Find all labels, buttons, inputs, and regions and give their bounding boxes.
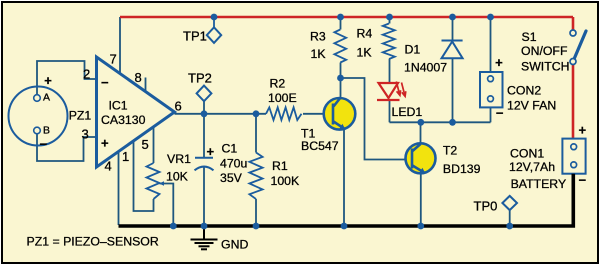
svg-text:R4: R4 [357,27,373,41]
svg-text:5: 5 [142,137,149,152]
svg-text:TP1: TP1 [183,29,207,44]
svg-text:1K: 1K [311,47,327,61]
svg-text:6: 6 [175,99,182,114]
svg-text:35V: 35V [220,171,243,185]
svg-text:C1: C1 [222,142,238,156]
svg-text:−: − [496,105,504,120]
svg-text:IC1: IC1 [109,99,128,113]
svg-text:BC547: BC547 [301,139,339,153]
svg-text:−: − [101,75,109,90]
svg-text:ON/OFF: ON/OFF [521,44,568,58]
svg-text:+: + [101,136,109,151]
svg-text:7: 7 [110,52,117,67]
svg-text:100K: 100K [271,174,301,188]
svg-text:S1: S1 [522,30,537,44]
svg-text:10K: 10K [166,170,189,184]
svg-text:CON1: CON1 [510,147,544,161]
svg-text:R1: R1 [272,159,288,173]
svg-text:B: B [43,125,50,137]
svg-text:−: − [40,137,48,152]
svg-text:+: + [207,144,215,159]
svg-text:D1: D1 [405,43,421,57]
svg-text:R3: R3 [310,30,326,44]
svg-text:−: − [579,173,587,188]
svg-text:LED1: LED1 [392,105,423,119]
svg-text:2: 2 [83,67,90,82]
svg-text:A: A [43,92,50,104]
svg-text:CON2: CON2 [507,84,541,98]
svg-text:BATTERY: BATTERY [511,177,567,191]
svg-text:470u: 470u [220,157,248,171]
svg-text:1N4007: 1N4007 [404,61,447,75]
svg-text:VR1: VR1 [167,152,191,166]
svg-text:1: 1 [122,149,129,164]
svg-text:BD139: BD139 [443,162,481,176]
svg-text:8: 8 [135,70,142,85]
svg-text:+: + [44,73,52,88]
svg-text:100E: 100E [268,91,297,105]
svg-text:PZ1 = PIEZO–SENSOR: PZ1 = PIEZO–SENSOR [27,235,159,249]
svg-text:12V FAN: 12V FAN [507,99,556,113]
svg-text:SWITCH: SWITCH [521,60,570,74]
svg-text:3: 3 [82,127,89,142]
svg-text:+: + [579,123,587,138]
svg-text:4: 4 [105,159,112,174]
svg-text:GND: GND [221,238,248,252]
svg-text:T2: T2 [443,144,458,158]
svg-text:+: + [495,55,503,70]
svg-text:TP0: TP0 [474,199,498,214]
svg-text:12V,7Ah: 12V,7Ah [509,160,555,174]
svg-text:R2: R2 [270,77,286,91]
svg-text:TP2: TP2 [188,71,212,86]
svg-text:1K: 1K [357,46,373,60]
svg-text:CA3130: CA3130 [101,113,146,127]
svg-text:PZ1: PZ1 [69,108,92,122]
